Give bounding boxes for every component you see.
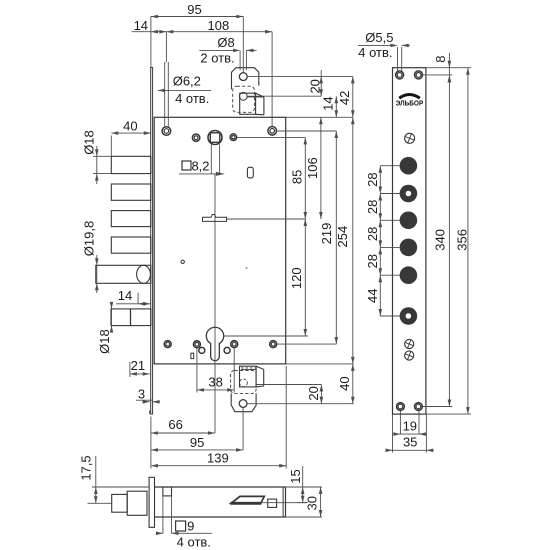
Ø6,2 hole projection lines — [165, 62, 169, 127]
dim 17,5 — [79, 455, 149, 503]
top hidden body (dashed) — [233, 86, 255, 112]
square hole projection lines — [163, 496, 172, 533]
svg-text:Ø8: Ø8 — [217, 35, 234, 50]
svg-text:95: 95 — [190, 435, 204, 450]
cylinder screw hole left — [193, 341, 200, 348]
dim 42 — [337, 76, 355, 117]
handle screw hole left — [192, 134, 199, 141]
plate screw hole top-right (Ø5.5) — [415, 71, 423, 79]
side faceplate — [149, 477, 154, 527]
svg-text:35: 35 — [403, 435, 417, 450]
dim 19 — [393, 411, 427, 436]
svg-text:21: 21 — [131, 358, 145, 373]
label 44 — [365, 288, 380, 302]
dim 108 (top) — [166, 18, 272, 34]
side bolt tip — [112, 494, 128, 512]
armour plug 6 (with hole) — [400, 307, 418, 325]
dim 3 — [136, 386, 160, 403]
follower square projection lines — [211, 144, 219, 174]
svg-text:120: 120 — [289, 267, 304, 289]
svg-text:Ø18: Ø18 — [97, 329, 112, 354]
svg-text:Ø19,8: Ø19,8 — [81, 221, 96, 256]
dim 40 (left) — [111, 119, 151, 158]
top tab centerline — [242, 17, 244, 73]
dim 14 (vertical right) — [320, 96, 338, 117]
svg-text:19: 19 — [403, 419, 417, 434]
leader plate bottom hole right — [422, 406, 452, 408]
fixing hole top-left (Ø6.2) — [162, 127, 171, 136]
svg-text:14: 14 — [134, 18, 148, 33]
side square hole slot — [163, 487, 172, 496]
pivot dot — [181, 260, 184, 263]
dim 35 — [386, 414, 434, 452]
svg-text:38: 38 — [208, 374, 222, 389]
svg-text:44: 44 — [365, 288, 380, 302]
svg-text:40: 40 — [337, 376, 352, 390]
bottom box hidden hole (Ø8 dashed) — [240, 379, 248, 387]
svg-text:95: 95 — [187, 2, 201, 17]
leader bottom tab hole — [247, 403, 354, 405]
svg-text:15: 15 — [288, 469, 303, 483]
small hole a — [199, 347, 205, 353]
svg-text:Ø5,5: Ø5,5 — [365, 30, 393, 45]
svg-text:340: 340 — [433, 229, 448, 251]
svg-text:8,2: 8,2 — [191, 158, 209, 173]
svg-text:106: 106 — [305, 157, 320, 179]
leader from top tab hole — [247, 75, 352, 77]
dim 14 (latch) — [116, 288, 150, 306]
centerline follower to keyhole — [214, 174, 216, 433]
dim 21 — [130, 358, 150, 377]
label square 8,2 — [179, 158, 225, 176]
bottom catch tab hole (Ø8) — [239, 400, 247, 408]
svg-text:4 отв.: 4 отв. — [177, 534, 211, 549]
svg-text:28: 28 — [365, 227, 380, 241]
euro cylinder keyhole — [206, 327, 223, 360]
svg-text:66: 66 — [168, 417, 182, 432]
faceplate front — [393, 68, 426, 414]
label Ø8 2 отв. — [199, 35, 256, 66]
dim 139 — [151, 450, 286, 467]
dim 85 — [289, 137, 307, 219]
side square pin — [268, 499, 277, 507]
armour plug 2 (with hole) — [400, 185, 418, 203]
side latch piece — [231, 496, 264, 504]
cylinder screw hole right — [231, 341, 238, 348]
bottom tab centerline — [242, 408, 244, 450]
bottom hidden body (dashed) — [231, 370, 257, 393]
svg-text:3: 3 — [138, 386, 145, 401]
fixing hole top-right (Ø6.2) — [268, 127, 277, 136]
small hole b — [224, 347, 230, 353]
svg-text:14: 14 — [320, 96, 335, 110]
leader bottom box line — [256, 384, 321, 386]
svg-text:20: 20 — [307, 79, 322, 93]
leader top-right hole — [277, 130, 337, 132]
svg-text:139: 139 — [207, 450, 229, 465]
label Ø6,2 4 отв. — [158, 73, 211, 106]
bottom catch tab — [231, 393, 256, 411]
label 28 c — [365, 227, 380, 241]
dim 95 (bottom) — [151, 435, 243, 452]
svg-text:108: 108 — [208, 18, 230, 33]
logo ЭЛЬБОР — [396, 95, 424, 108]
dim 66 — [151, 417, 215, 435]
plug leader lines — [380, 166, 399, 316]
lock case body — [154, 117, 286, 364]
svg-text:219: 219 — [319, 223, 334, 245]
label square 9 4 отв. — [156, 519, 212, 550]
plate phillips screw bottom 1 — [405, 339, 414, 348]
dim Ø19,8 — [81, 221, 98, 293]
dim 14 (top) — [132, 18, 167, 34]
armour plug 4 — [400, 239, 418, 257]
top catch tab — [232, 68, 259, 90]
ext side body bottom right — [286, 516, 323, 518]
side bolt centerline — [88, 502, 112, 504]
svg-text:356: 356 — [455, 229, 470, 251]
ext strip top — [150, 17, 152, 68]
Ø8 hole projection lines — [240, 50, 246, 70]
armour plug 1 — [400, 157, 418, 175]
svg-text:9: 9 — [187, 519, 194, 534]
svg-text:Ø6,2: Ø6,2 — [173, 73, 201, 88]
side bolt collar — [127, 491, 147, 515]
dim 30 (side) — [304, 487, 322, 517]
ext case right bottom — [285, 366, 287, 469]
top catch tab hole (Ø8) — [239, 73, 247, 81]
plate phillips screw top — [405, 133, 415, 143]
svg-text:17,5: 17,5 — [79, 455, 94, 480]
ext plate top right — [426, 67, 471, 69]
armour plug 3 — [400, 212, 418, 230]
ext case bottom right — [286, 363, 354, 365]
svg-text:40: 40 — [123, 119, 137, 134]
plate hole bottom-right — [415, 403, 423, 411]
dim 120 — [289, 219, 307, 336]
dim 106 — [305, 117, 323, 219]
plate screw hole top-left (Ø5.5) — [396, 71, 404, 79]
svg-text:42: 42 — [337, 91, 352, 105]
top 3d box — [240, 93, 264, 115]
dim 95 (top) — [151, 2, 243, 19]
ext strip bottom left — [150, 417, 152, 469]
latch bolt — [111, 309, 151, 326]
svg-text:2 отв.: 2 отв. — [200, 51, 234, 66]
dim 356 — [455, 68, 470, 414]
dim 20 (bottom right) — [306, 385, 323, 404]
plate hole bottom-left — [397, 403, 405, 411]
leader keyhole line — [224, 335, 308, 337]
label 28 a — [365, 172, 380, 186]
svg-text:Ø18: Ø18 — [81, 130, 96, 155]
dim Ø18 (latch) — [97, 302, 113, 354]
dim 20 (top) — [307, 70, 323, 96]
fixing hole bottom-left (Ø6.2) — [164, 341, 171, 348]
leader bottom-right hole — [277, 343, 337, 345]
label Ø5,5 4 отв. — [358, 30, 410, 60]
deadbolt pin 2 — [111, 184, 151, 200]
label 28 b — [365, 200, 380, 214]
Ø5,5 projection lines — [398, 47, 402, 71]
side body — [155, 487, 286, 517]
spindle follower (square 8.2) — [208, 131, 222, 145]
dim 15 (side) — [288, 466, 308, 503]
svg-text:28: 28 — [365, 200, 380, 214]
main deadbolt (Ø19.8) — [96, 265, 151, 283]
leader follower line — [237, 136, 305, 138]
slot hole lower — [191, 353, 194, 359]
svg-text:28: 28 — [365, 172, 380, 186]
fixing hole bottom-right (Ø6.2) — [270, 341, 277, 348]
faceplate strip (side view in front projection) — [150, 68, 153, 415]
deadbolt pin 3 — [111, 211, 151, 227]
dim 8 and 340 line — [433, 53, 452, 407]
ext case top right — [286, 116, 353, 118]
svg-text:20: 20 — [306, 386, 321, 400]
top box hole (Ø8) — [239, 92, 247, 100]
svg-text:28: 28 — [365, 254, 380, 268]
dim 40 (bottom right) — [337, 364, 355, 404]
side centerline right — [261, 502, 308, 504]
dim 219 — [319, 131, 338, 344]
svg-text:8: 8 — [433, 55, 448, 62]
dim 38 — [197, 348, 234, 393]
armour plug 5 — [400, 266, 418, 284]
slot hole upper — [247, 167, 253, 178]
svg-text:4 отв.: 4 отв. — [358, 45, 392, 60]
bottom 3d box — [240, 366, 264, 387]
dim 254 — [335, 117, 355, 364]
leader lever line — [227, 218, 306, 220]
ext hole left top — [165, 32, 167, 62]
ext hole right top — [271, 32, 273, 126]
svg-text:ЭЛЬБОР: ЭЛЬБОР — [396, 98, 424, 107]
deadbolt pin 4 — [111, 237, 151, 253]
tiny dot — [246, 267, 247, 268]
label 28 d — [365, 254, 380, 268]
ext side body top right — [286, 486, 323, 488]
plate phillips screw bottom 2 — [405, 351, 414, 360]
svg-text:30: 30 — [304, 496, 319, 510]
handle screw hole right — [230, 134, 237, 141]
deadbolt pin 1 — [111, 156, 151, 173]
leader plate hole right — [423, 74, 453, 76]
svg-text:14: 14 — [118, 288, 132, 303]
svg-text:254: 254 — [335, 226, 350, 248]
dim Ø18 (top bolt) — [81, 130, 111, 184]
svg-text:4 отв.: 4 отв. — [175, 91, 209, 106]
leader from top box hole — [248, 95, 322, 97]
ext plate bottom right — [426, 413, 471, 415]
dim chain 28/44 line — [379, 166, 383, 316]
spring lever — [203, 215, 227, 222]
svg-text:85: 85 — [289, 170, 304, 184]
